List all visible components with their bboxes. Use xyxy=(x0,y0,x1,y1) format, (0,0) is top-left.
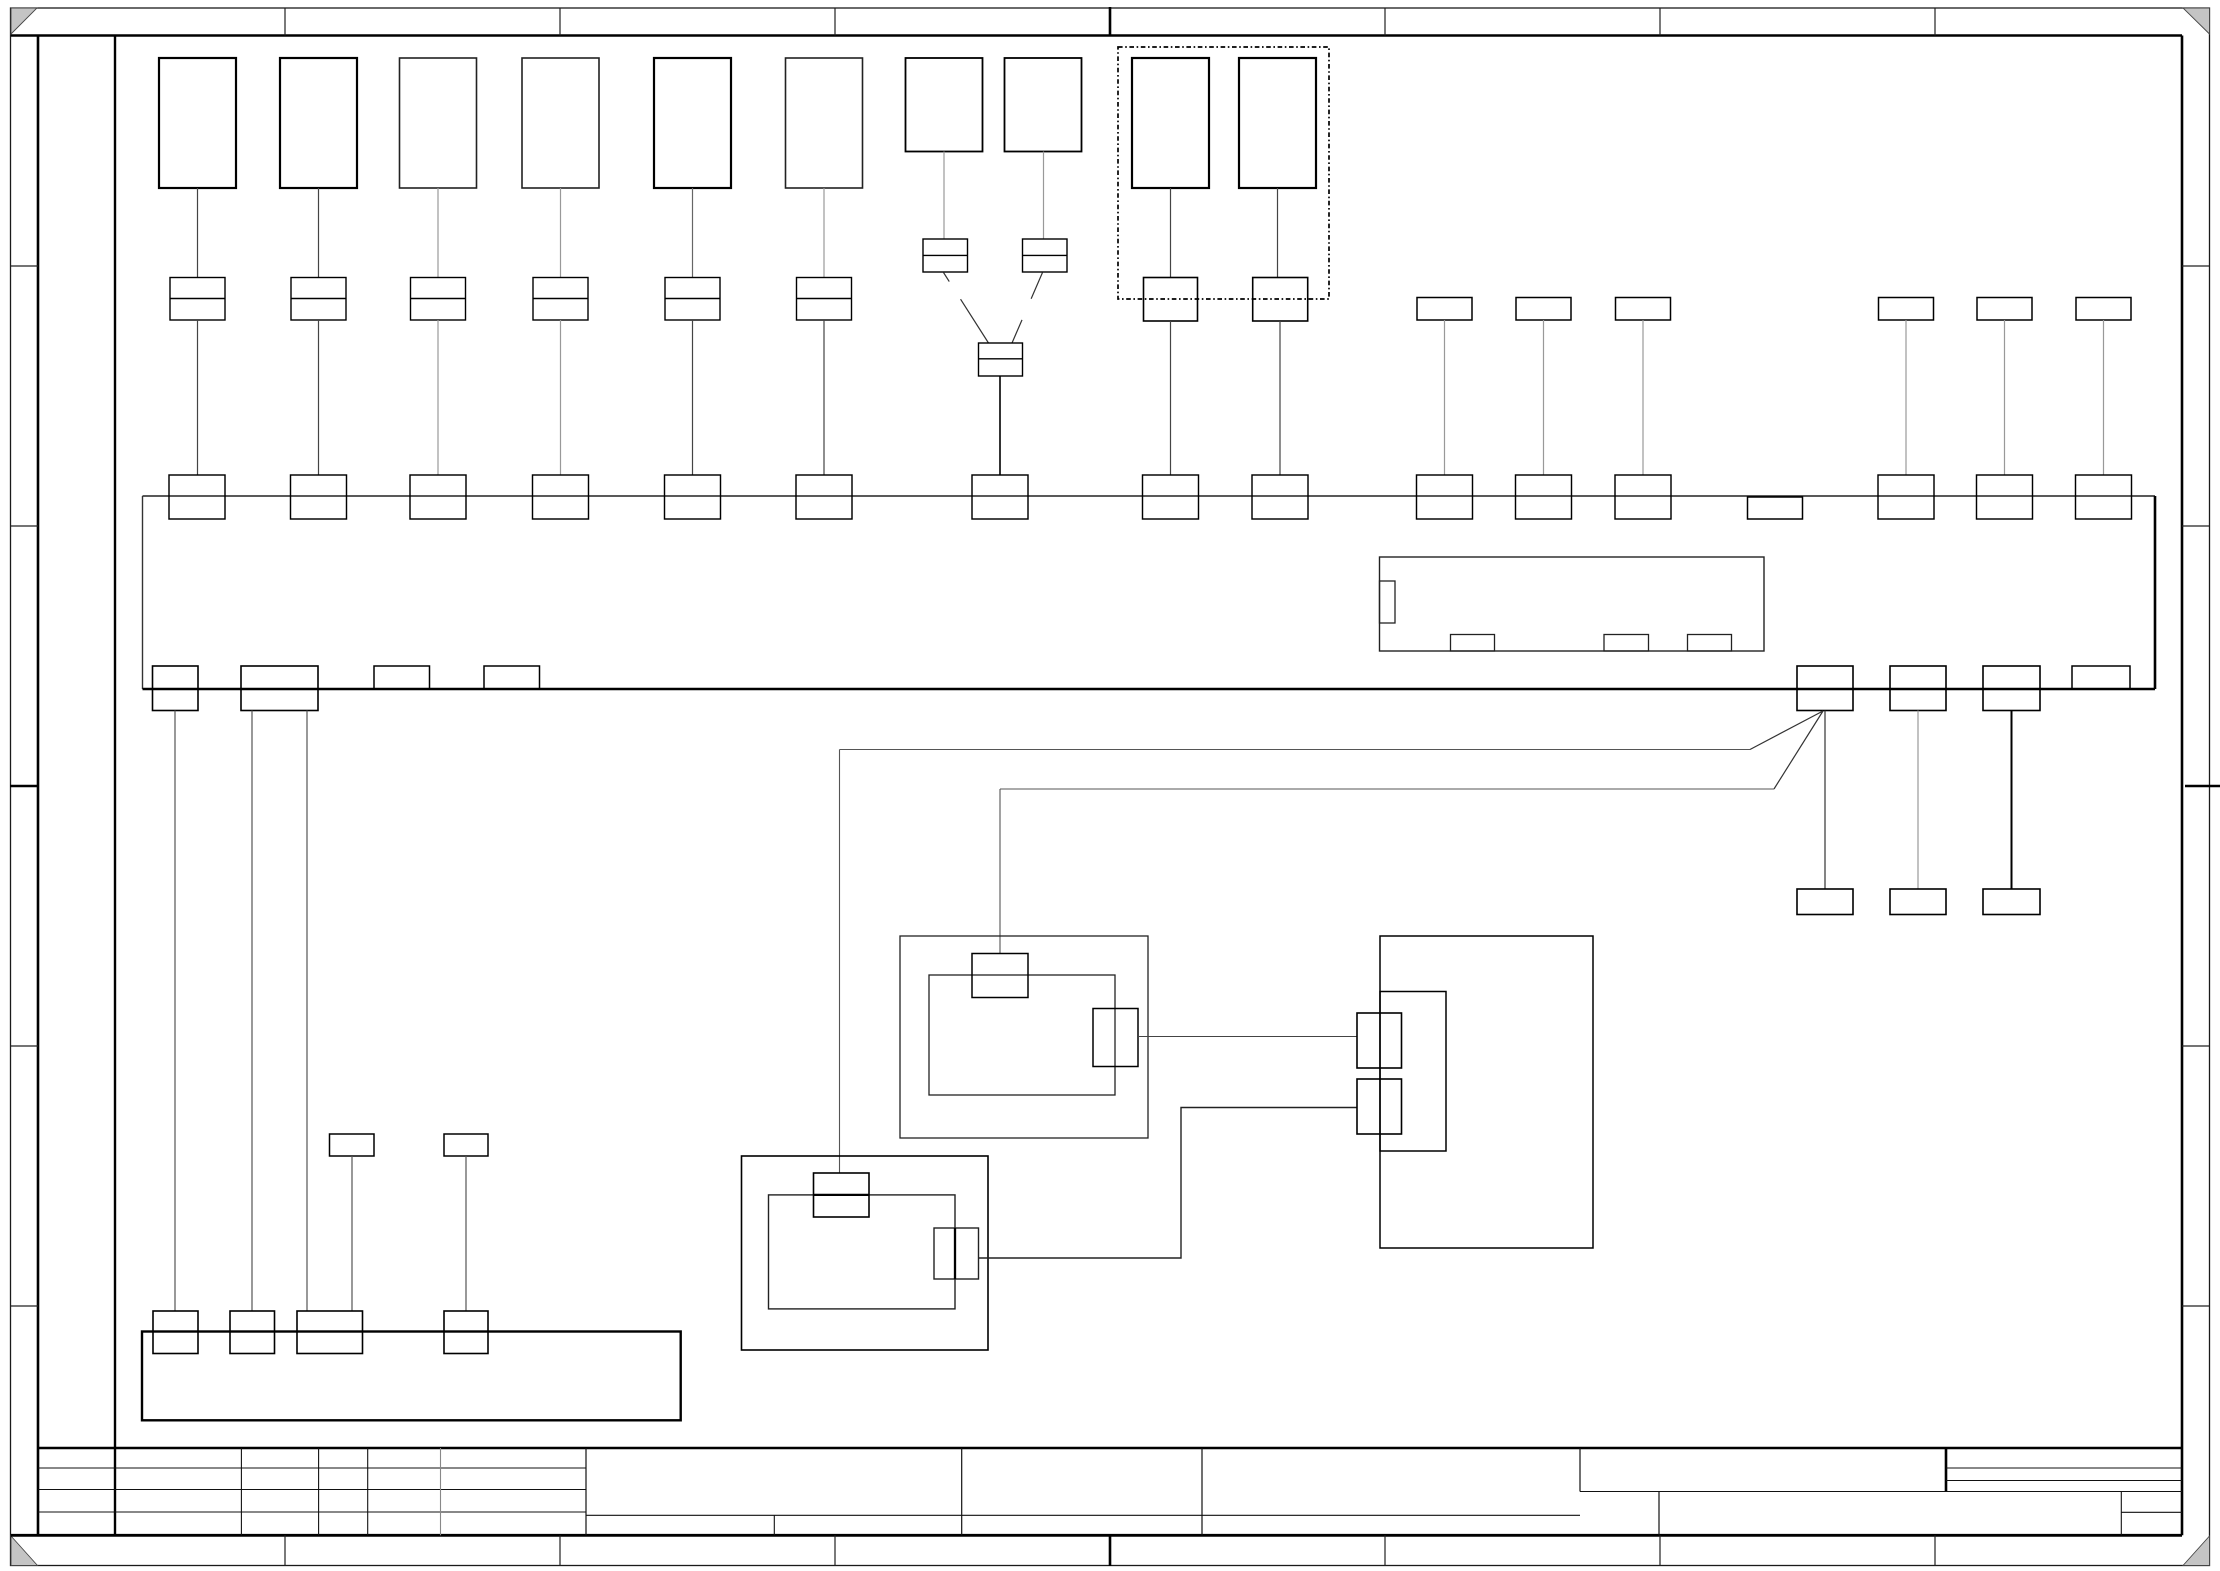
bottom margin zone ticks xyxy=(284,1535,286,1565)
module M1 inner body xyxy=(929,975,1115,1095)
module M2 right port xyxy=(934,1228,979,1279)
wire D1 to fuse F1 xyxy=(197,188,199,278)
module M1 outer enclosure xyxy=(900,936,1148,1138)
wire Q7 down to terminal E3 xyxy=(2011,711,2013,890)
corner fold triangle top-right xyxy=(2183,8,2210,34)
terminal E2 xyxy=(1890,889,1946,915)
bus port P15 xyxy=(2076,475,2132,519)
small box K1 xyxy=(1417,298,1472,321)
title block column d gray xyxy=(440,1448,442,1535)
title block mid row xyxy=(586,1514,1580,1516)
wire D5 to fuse F5 xyxy=(692,188,694,278)
title block top rule xyxy=(38,1447,2182,1450)
wire A horizontal run xyxy=(840,749,1751,751)
small box K6 xyxy=(2076,298,2131,321)
terminal E1 xyxy=(1797,889,1853,915)
wire D3 to fuse F3 xyxy=(437,188,439,278)
device R1 outer enclosure xyxy=(1380,936,1593,1248)
bus port P10 xyxy=(1417,475,1473,519)
wire F9 to bus port P7 xyxy=(999,376,1001,475)
device D9 xyxy=(1132,58,1209,188)
wire F1 to bus port P1 xyxy=(197,320,199,475)
fuse F4 xyxy=(533,278,588,321)
small box S1 xyxy=(330,1134,375,1156)
left margin zone ticks xyxy=(11,265,39,267)
device D5 xyxy=(654,58,731,188)
bus bottom stub box Q4 xyxy=(484,666,540,689)
bus port P4 xyxy=(533,475,589,519)
wire Q2 down to terminal C xyxy=(306,711,308,1312)
device R1 port1 xyxy=(1357,1013,1402,1068)
wire Q6 down to terminal E2 xyxy=(1917,711,1919,890)
wire D10 to terminal T10 xyxy=(1277,188,1279,278)
bus port P12 xyxy=(1615,475,1671,519)
title block left section row 2 xyxy=(38,1489,586,1491)
module M2 outer enclosure xyxy=(742,1156,989,1350)
CPU module U2 bottom notch 3 xyxy=(1688,635,1732,652)
fuse F7 xyxy=(923,239,968,272)
bus port P14 xyxy=(1977,475,2033,519)
title block column c xyxy=(367,1448,369,1535)
bus port P8 xyxy=(1143,475,1199,519)
wire D9 to terminal T9 xyxy=(1170,188,1172,278)
module M1 right port xyxy=(1093,1009,1138,1067)
wire Q2 down to terminal B xyxy=(251,711,253,1312)
small box S2 xyxy=(444,1134,488,1156)
bus rack U1 top edge xyxy=(143,495,2156,497)
dashed drop wire F8 to F9 xyxy=(1012,273,1043,344)
terminal T10 xyxy=(1253,278,1308,322)
title block column h xyxy=(1579,1448,1581,1492)
device D7 xyxy=(906,58,983,152)
fuse F3 xyxy=(411,278,466,321)
module M2 inner body xyxy=(769,1195,956,1309)
wire A vertical drop to M2 top port xyxy=(839,750,841,1174)
title block right small row xyxy=(2121,1511,2182,1513)
wire Q5 down to terminal E1 xyxy=(1824,711,1826,890)
wire D7 to fuse F7 xyxy=(943,152,945,240)
corner fold triangle top-left xyxy=(11,8,37,34)
title block right row 1 xyxy=(1946,1467,2182,1469)
wire F6 to bus port P6 xyxy=(823,320,825,475)
terminal E3 xyxy=(1983,889,2040,915)
wire B horizontal run xyxy=(1000,788,1774,790)
title block left section row 3 xyxy=(38,1511,586,1513)
device R1 inner body xyxy=(1380,992,1446,1152)
device R1 port2 xyxy=(1357,1079,1402,1134)
terminal T9 xyxy=(1144,278,1198,322)
wire D6 to fuse F6 xyxy=(823,188,825,278)
dashed drop wire F7 to F9 xyxy=(944,273,989,344)
wire K6 to bus port P15 xyxy=(2103,320,2105,475)
fuse F5 xyxy=(665,278,720,321)
bus port P5 xyxy=(665,475,721,519)
wire K1 to bus port P10 xyxy=(1444,320,1446,475)
CPU module U2 bottom notch 1 xyxy=(1451,635,1495,652)
wire F2 to bus port P2 xyxy=(318,320,320,475)
fan diagonal Q5 to wire B xyxy=(1774,711,1823,789)
inner frame right border xyxy=(2181,36,2184,1536)
terminal B xyxy=(230,1311,275,1354)
device D4 xyxy=(522,58,599,188)
CPU module U2 bottom notch 2 xyxy=(1604,635,1649,652)
title block column f xyxy=(961,1448,963,1535)
device D2 xyxy=(280,58,357,188)
bus bottom port Q6 xyxy=(1890,666,1946,711)
device D3 xyxy=(400,58,477,188)
frame column divider x=115 xyxy=(114,36,116,1536)
wire F3 to bus port P3 xyxy=(437,320,439,475)
small box K5 xyxy=(1977,298,2032,321)
bus bottom stub box Q3 xyxy=(374,666,430,689)
wire D8 to fuse F8 xyxy=(1043,152,1045,240)
inner frame bottom border (title block bottom) xyxy=(11,1534,2182,1537)
small box K2 xyxy=(1516,298,1571,321)
fuse F1 xyxy=(170,278,225,321)
title block column i thick xyxy=(1945,1448,1948,1492)
fuse F6 xyxy=(797,278,852,321)
bus bottom port Q5 xyxy=(1797,666,1853,711)
wire T10 to bus port P9 xyxy=(1279,321,1281,475)
CPU module U2 inside bus rack xyxy=(1380,557,1765,651)
inner frame top border xyxy=(11,34,2182,37)
title block right mid row xyxy=(1580,1491,2182,1493)
wire F4 to bus port P4 xyxy=(560,320,562,475)
small box K4 xyxy=(1879,298,1934,321)
bus rack U1 right edge xyxy=(2154,496,2157,689)
bus port P2 xyxy=(291,475,347,519)
title block mid cell divider xyxy=(773,1515,775,1535)
bus bottom stub box Q8 xyxy=(2072,666,2130,689)
bus bottom port Q7 xyxy=(1983,666,2040,711)
wire T9 to bus port P8 xyxy=(1170,321,1172,475)
corner fold triangle bottom-right xyxy=(2183,1536,2210,1566)
dash-dot enclosure around D9 D10 xyxy=(1118,47,1329,299)
bus port P6 xyxy=(796,475,852,519)
wire D4 to fuse F4 xyxy=(560,188,562,278)
device D10 xyxy=(1239,58,1316,188)
wire S2 down to terminal D xyxy=(465,1156,467,1311)
wire K4 to bus port P13 xyxy=(1905,320,1907,475)
small box K3 xyxy=(1616,298,1671,321)
inner frame left border xyxy=(37,36,40,1536)
module M2 top port xyxy=(814,1173,870,1217)
bus port P3 xyxy=(410,475,466,519)
device D8 xyxy=(1005,58,1082,152)
terminal A xyxy=(153,1311,198,1354)
wire K3 to bus port P12 xyxy=(1642,320,1644,475)
bus port P13 xyxy=(1878,475,1934,519)
wire Q1 down to terminal A xyxy=(174,711,176,1312)
wire K2 to bus port P11 xyxy=(1543,320,1545,475)
CPU module U2 left key notch xyxy=(1380,581,1396,623)
title block left section row 1 xyxy=(38,1467,586,1469)
terminal D xyxy=(444,1311,488,1354)
bottom strip box B1 xyxy=(142,1332,681,1421)
wire B vertical drop to M1 top port xyxy=(999,789,1001,954)
device D1 xyxy=(159,58,236,188)
title block column g xyxy=(1201,1448,1203,1535)
device D6 xyxy=(786,58,863,188)
bus port P7 xyxy=(972,475,1028,519)
wire F5 to bus port P5 xyxy=(692,320,694,475)
bus port P11 xyxy=(1516,475,1572,519)
bus rack U1 bottom edge xyxy=(143,688,2156,691)
title block column b xyxy=(318,1448,320,1535)
title block column j xyxy=(1658,1492,1660,1536)
fan diagonal Q5 to wire A xyxy=(1750,711,1823,750)
fuse F2 xyxy=(291,278,346,321)
bus bottom port Q2 wide xyxy=(241,666,318,711)
fuse F8 xyxy=(1023,239,1068,272)
bus port P9 xyxy=(1252,475,1308,519)
bus port P1 xyxy=(169,475,225,519)
top margin zone ticks xyxy=(284,8,286,36)
corner fold triangle bottom-left xyxy=(11,1536,38,1566)
bus inner port P16 below top edge xyxy=(1748,497,1803,519)
bus bottom port Q1 xyxy=(153,666,199,711)
wire M1 right port to R1 port1 xyxy=(1138,1036,1357,1038)
wire K5 to bus port P14 xyxy=(2004,320,2006,475)
title block column e xyxy=(585,1448,587,1535)
terminal C wide xyxy=(297,1311,363,1354)
module M1 top port xyxy=(972,954,1028,998)
fuse F9 xyxy=(979,343,1023,376)
wire M2 right port to R1 port2 L-run xyxy=(979,1108,1358,1259)
title block right row 2 xyxy=(1946,1480,2182,1482)
wire D2 to fuse F2 xyxy=(318,188,320,278)
title block column k xyxy=(2120,1492,2122,1536)
right margin zone ticks xyxy=(2182,265,2210,267)
title block column a xyxy=(240,1448,242,1535)
wire S1 down to terminal C xyxy=(351,1156,353,1311)
bus rack U1 left edge xyxy=(142,496,144,689)
